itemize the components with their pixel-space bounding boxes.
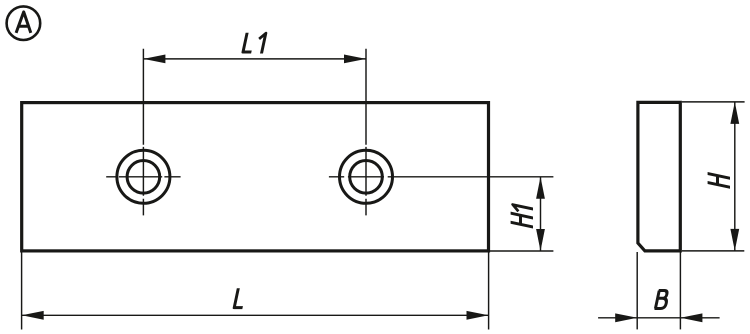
dimension L label: [234, 288, 247, 307]
dimension L1 label: [243, 33, 256, 52]
dimension H1 bottom arrowhead: [536, 229, 545, 251]
view label A text: [16, 12, 31, 33]
hole 1 inner circle (bore): [127, 161, 160, 194]
hole 1 outer circle (counterbore): [117, 150, 170, 203]
dimension H bottom arrowhead: [730, 229, 739, 251]
dimension B left extension line: [636, 252, 638, 329]
dimension B right extension line: [679, 252, 681, 329]
dimension L left extension line: [21, 252, 23, 330]
dimension L1 right arrowhead: [344, 55, 366, 64]
dimension H1 top arrowhead: [536, 177, 545, 199]
front view plate outline: [22, 103, 489, 251]
dimension H1 bottom extension line (plate bottom edge extended): [489, 250, 553, 252]
dimension L right arrowhead: [467, 311, 489, 320]
dimension H bottom extension line (side view bottom edge extended): [682, 250, 744, 252]
dimension B right arrowhead (outside, pointing left): [680, 313, 702, 322]
hole 1 horizontal centerline: [106, 176, 180, 178]
dimension H line: [734, 102, 736, 251]
view label A circle: [7, 6, 41, 40]
dimension H top extension line: [682, 101, 745, 103]
dimension L line: [22, 314, 489, 316]
hole 2 outer circle (counterbore): [340, 150, 393, 203]
dimension L left arrowhead: [22, 311, 44, 320]
dimension B left arrowhead (outside, pointing right): [615, 313, 637, 322]
dimension B line: [598, 317, 720, 319]
hole 2 vertical centerline / L1 extension line: [365, 49, 367, 216]
hole 2 inner circle (bore): [350, 161, 383, 194]
dimension L right extension line: [488, 252, 490, 330]
hole 2 horizontal centerline / H1 top extension line: [329, 176, 554, 178]
dimension H1 label (rotated): [511, 213, 533, 227]
dimension L1 left arrowhead: [143, 55, 165, 64]
dimension L1 line: [143, 58, 366, 60]
dimension H1 line: [540, 177, 542, 251]
side view outline with chamfer: [638, 102, 680, 251]
hole 1 vertical centerline / L1 extension line: [142, 49, 144, 216]
dimension H top arrowhead: [730, 102, 739, 124]
dimension H label (rotated): [708, 173, 730, 187]
dimension B label: [655, 291, 669, 309]
